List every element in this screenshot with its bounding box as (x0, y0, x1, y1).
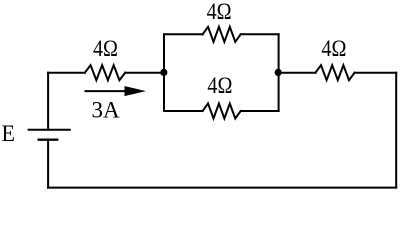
svg-text:4Ω: 4Ω (207, 73, 232, 98)
svg-text:E: E (2, 121, 16, 146)
wire: right vertical side of parallel box (278, 34, 280, 111)
resistor R2 (top parallel 4 ohm) (203, 27, 241, 42)
svg-text:4Ω: 4Ω (321, 36, 346, 61)
battery E: short (negative) plate (39, 138, 58, 140)
wire: top side of box, left of R2 (164, 33, 203, 35)
resistor R4 (right 4 ohm) (315, 65, 354, 80)
wire: top side of box, right of R2 (241, 33, 279, 35)
svg-text:4Ω: 4Ω (207, 0, 232, 24)
wire: bottom side of box, right of R3 (241, 110, 279, 112)
svg-text:4Ω: 4Ω (93, 36, 118, 61)
resistor R1 (left 4 ohm) (85, 65, 125, 80)
current arrow (direction of 3A) (86, 90, 127, 92)
wire: top wire from battery corner to resistor R1 (48, 72, 85, 74)
svg-text:3A: 3A (91, 98, 120, 123)
battery E: long (positive) plate (29, 129, 70, 131)
node B (right junction dot) (275, 69, 282, 76)
wire: right vertical side (395, 73, 397, 188)
node A (left junction dot) (160, 69, 167, 76)
wire: left vertical side of parallel box (163, 34, 165, 111)
resistor R3 (bottom parallel 4 ohm) (203, 104, 241, 119)
wire: from node B to resistor R4 (279, 72, 316, 74)
wire: from R1 to node A (125, 72, 164, 74)
wire: bottom return wire (48, 187, 396, 189)
wire: from R4 to top-right corner (355, 72, 397, 74)
wire: from battery down to bottom wire (47, 140, 49, 188)
wire: bottom side of box, left of R3 (164, 110, 203, 112)
wire: left vertical from top wire down to battery (47, 73, 49, 130)
